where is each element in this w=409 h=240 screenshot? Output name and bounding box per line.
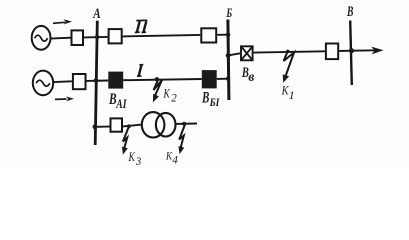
- node bus B / line I: [226, 77, 230, 81]
- wire line I: [123, 79, 202, 80]
- arrow (power direction below G2): [55, 96, 74, 101]
- fault K4 lightning: [179, 125, 185, 155]
- wire line II: [123, 35, 201, 37]
- node bus B / line II: [226, 33, 231, 38]
- svg-text:АI: АI: [116, 97, 128, 111]
- svg-text:В: В: [346, 4, 353, 20]
- wire bus B to VV: [228, 53, 240, 55]
- svg-text:К: К: [128, 149, 136, 164]
- svg-text:2: 2: [171, 91, 177, 105]
- wire bus A to breaker: [95, 126, 109, 128]
- node bus A / transformer branch: [93, 124, 98, 129]
- fault K2 lightning: [153, 79, 162, 103]
- generator G2: [33, 71, 53, 96]
- svg-text:К: К: [163, 85, 171, 100]
- breaker (G2): [73, 74, 86, 89]
- arrow (power direction above G1): [53, 19, 72, 24]
- wire breaker to bus V: [339, 50, 351, 52]
- node K3: [127, 124, 131, 128]
- bus A: [95, 21, 97, 145]
- wire transformer to K4: [176, 123, 198, 125]
- node K2 on line I: [155, 77, 159, 81]
- wire G1 to breaker: [50, 37, 70, 40]
- wire G2 to breaker: [53, 80, 72, 83]
- breaker (before bus V): [326, 44, 338, 60]
- transformer T1: [142, 112, 176, 137]
- svg-text:А: А: [92, 6, 100, 22]
- wire line I to bus B: [217, 78, 228, 80]
- arrow (load, right of bus V): [352, 47, 384, 55]
- fault K3 lightning: [122, 127, 129, 155]
- bus B (Б): [228, 20, 229, 101]
- label line II: [135, 20, 148, 32]
- svg-text:в: в: [248, 70, 255, 85]
- svg-text:В: В: [201, 89, 209, 106]
- wire breaker to bus A: [87, 80, 109, 82]
- svg-text:1: 1: [289, 88, 295, 102]
- breaker VAI (closed, line I at bus A): [108, 72, 123, 89]
- node bus B / VV line: [226, 53, 231, 58]
- breaker (G1): [72, 30, 84, 45]
- breaker VBI (closed, line I at bus B): [202, 70, 217, 88]
- node K1 on line: [286, 50, 289, 53]
- svg-text:Б: Б: [226, 6, 233, 20]
- breaker (line II at bus B): [201, 28, 216, 42]
- node K4: [182, 122, 186, 126]
- svg-text:4: 4: [172, 152, 178, 166]
- node bus A / line I: [94, 78, 99, 83]
- node bus A / line II: [95, 35, 100, 40]
- fault K1 lightning: [283, 51, 294, 83]
- label line I: [137, 65, 143, 77]
- breaker (line II at bus A): [109, 29, 122, 43]
- breaker VV (crossed square): [241, 46, 253, 60]
- svg-text:БI: БI: [209, 95, 221, 109]
- breaker (transformer branch): [111, 118, 123, 131]
- node bus V: [349, 48, 354, 53]
- bus V (В): [350, 21, 352, 86]
- wire VV to breaker: [254, 51, 325, 52]
- svg-text:3: 3: [135, 154, 141, 168]
- wire breaker to bus B: [217, 34, 228, 36]
- wire breaker to transformer: [123, 125, 142, 127]
- generator G1: [32, 26, 51, 50]
- wire breaker to bus A: [84, 36, 108, 39]
